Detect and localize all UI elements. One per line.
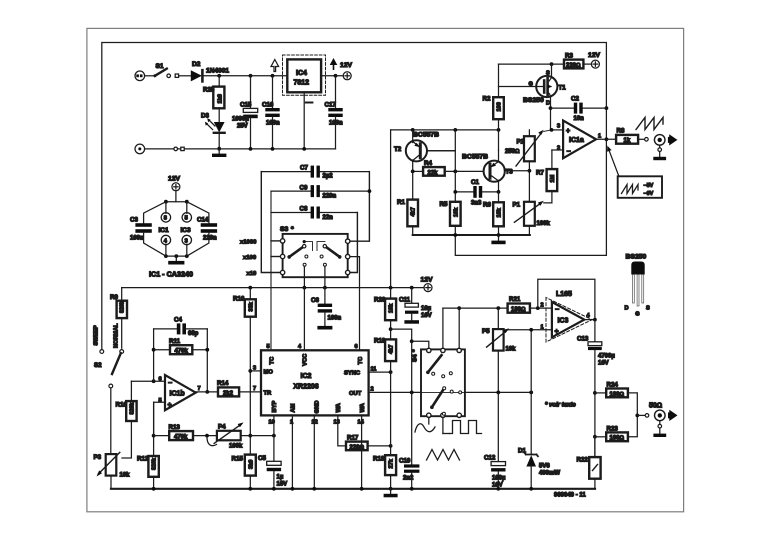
svg-text:P5: P5 — [482, 328, 490, 335]
svg-text:100µ: 100µ — [492, 476, 506, 482]
wire sweep line / top boundary wire — [102, 43, 607, 350]
node R20 top — [389, 286, 393, 290]
svg-text:R12: R12 — [137, 456, 149, 463]
svg-text:820k: 820k — [129, 403, 135, 415]
svg-text:820k: 820k — [120, 301, 126, 313]
svg-text:BS250: BS250 — [626, 254, 647, 261]
svg-text:+: + — [555, 329, 559, 336]
svg-text:R19: R19 — [374, 338, 386, 345]
svg-text:C5: C5 — [258, 455, 266, 462]
node S3a drop / IC2 VCC — [303, 286, 307, 290]
svg-text:C6: C6 — [311, 297, 319, 304]
S3a pole drop to rail — [303, 266, 305, 287]
node R13 wire / R12 — [152, 434, 156, 438]
S4 bottom contacts — [427, 413, 431, 417]
capacitor C15 1000u 25V — [250, 76, 252, 109]
wire OUT node up to R20/R19 node — [391, 329, 412, 392]
octagon left slant and C3 branch — [144, 202, 166, 224]
svg-text:R25: R25 — [203, 87, 215, 94]
square wave symbol — [450, 421, 482, 434]
IC2 XR2206 body — [261, 350, 369, 415]
wire R14 to IC2 TR pin7 — [239, 391, 261, 393]
svg-text:R21: R21 — [509, 296, 521, 303]
svg-text:TR: TR — [264, 390, 273, 396]
diode D2 1N4001 — [191, 70, 202, 81]
svg-text:10k: 10k — [497, 207, 503, 217]
svg-text:10: 10 — [269, 420, 275, 426]
svg-text:10k: 10k — [453, 207, 459, 217]
node R23 left — [593, 435, 597, 439]
capacitor C13 4700u 16V — [594, 320, 596, 342]
S4 top contacts — [427, 348, 431, 352]
S3 right contacts — [346, 239, 350, 243]
wire terminal to octagon — [175, 191, 177, 202]
wire VCC pin4 — [303, 288, 305, 351]
resistor R25 1k8 — [213, 87, 224, 109]
S4b lever — [430, 405, 434, 409]
svg-text:R1: R1 — [397, 199, 405, 206]
svg-text:3n3: 3n3 — [471, 201, 482, 207]
resistor R2 100 — [498, 64, 500, 97]
svg-text:3: 3 — [557, 124, 560, 130]
opamp IC3 L165 — [552, 302, 584, 337]
svg-text:D1: D1 — [518, 448, 526, 455]
svg-text:TC: TC — [358, 356, 364, 365]
svg-text:100n: 100n — [266, 121, 280, 127]
regulator IC4 7812 dashed outline — [283, 55, 326, 95]
wire T2 collector row — [391, 129, 499, 131]
resistor R19 4k7 (rail to SYNC) — [390, 320, 392, 339]
resistor R3 220ohm — [564, 60, 583, 69]
resistor R5 10k — [450, 202, 461, 226]
resistor R20 10k — [390, 288, 392, 299]
IC3 pin 5 circle — [186, 202, 188, 214]
svg-text:S: S — [546, 71, 550, 77]
svg-text:5V6: 5V6 — [539, 464, 550, 470]
wire C9 row — [271, 190, 311, 192]
svg-text:T3: T3 — [506, 169, 514, 176]
wire C7/C9 right bus — [350, 172, 370, 242]
svg-text:C12: C12 — [484, 455, 496, 462]
svg-text:4700µ: 4700µ — [598, 354, 615, 360]
trimmer P2 250ohm — [524, 136, 535, 161]
svg-text:1000µ: 1000µ — [232, 117, 249, 123]
wire OUT pin2 — [369, 391, 421, 393]
ground symbol below rail — [390, 489, 392, 494]
wire S4 top-middle contact to R21 wire — [442, 308, 444, 348]
svg-text:2k2: 2k2 — [223, 391, 234, 397]
svg-text:2n2: 2n2 — [403, 476, 414, 482]
ground of octagon — [174, 254, 178, 258]
wire R25 to D3 — [218, 108, 220, 122]
resistor R11 470k — [154, 349, 170, 351]
callout arrow — [610, 152, 619, 177]
svg-text:10k: 10k — [120, 473, 131, 479]
wire T2 base vertical down to rail — [390, 130, 392, 288]
svg-text:100k: 100k — [229, 444, 243, 450]
wire SYNC node down to R18 — [390, 372, 392, 455]
svg-text:* voir texte: * voir texte — [545, 403, 576, 409]
S4a lever — [426, 371, 430, 375]
wire P2 wiper link — [544, 130, 552, 132]
wire jack to S1 — [145, 75, 155, 77]
connector on bottom rail — [174, 147, 178, 151]
trimmer P4 100k — [217, 431, 241, 441]
svg-text:AM: AM — [291, 403, 297, 412]
svg-text:220n: 220n — [323, 194, 337, 200]
svg-text:C10: C10 — [399, 458, 411, 465]
node C15 top — [249, 74, 253, 78]
svg-text:IC1: IC1 — [159, 227, 170, 234]
svg-text:180Ω: 180Ω — [511, 307, 526, 313]
wire AM pin1 to rail — [291, 415, 293, 488]
wire IC2 MO pin3 — [250, 370, 261, 372]
svg-text:16V: 16V — [277, 482, 288, 488]
svg-text:100Ω: 100Ω — [610, 392, 625, 398]
svg-text:7: 7 — [198, 386, 201, 392]
sine symbol below S4 — [415, 424, 435, 432]
svg-text:960040 - 11: 960040 - 11 — [554, 493, 586, 499]
node S4 upper link — [410, 339, 414, 343]
wire C8 right down to bottom-right contact — [350, 213, 358, 273]
svg-text:1k8: 1k8 — [217, 94, 223, 103]
wire R21 to IC3 minus — [530, 307, 552, 309]
opamp IC1a — [563, 121, 596, 159]
svg-text:x10: x10 — [247, 271, 258, 277]
resistor R15 3k9 — [245, 455, 256, 476]
transistor T3 BC557B — [484, 161, 505, 182]
node R16/MO — [248, 369, 252, 373]
svg-text:C17: C17 — [325, 102, 337, 109]
svg-text:R14: R14 — [217, 380, 229, 387]
svg-text:P2: P2 — [517, 139, 525, 146]
wire IC1a minus input — [552, 149, 563, 151]
wire middle-right contact to IC2 pin6 — [350, 257, 360, 351]
svg-text:D3: D3 — [201, 113, 209, 120]
svg-text:16V: 16V — [598, 361, 609, 367]
resistor R9 820k — [121, 288, 123, 301]
svg-text:D2: D2 — [192, 61, 201, 68]
svg-text:R4: R4 — [424, 160, 432, 167]
svg-text:470k: 470k — [175, 349, 189, 355]
svg-text:1k: 1k — [624, 138, 631, 144]
wire R10 to P3 wiper — [122, 421, 131, 458]
svg-text:−5V: −5V — [644, 183, 654, 189]
capacitor C7 2u2 — [311, 166, 314, 178]
svg-text:IC1 - CA3240: IC1 - CA3240 — [149, 270, 193, 279]
resistor R10 820k — [130, 381, 132, 401]
svg-text:100n: 100n — [329, 121, 343, 127]
svg-text:C11: C11 — [399, 297, 411, 304]
svg-text:−: − — [168, 380, 172, 387]
svg-text:C8: C8 — [300, 206, 308, 213]
svg-text:C4: C4 — [174, 317, 182, 324]
svg-text:IC3: IC3 — [181, 227, 192, 234]
svg-text:VCC: VCC — [303, 353, 309, 366]
svg-text:C13: C13 — [577, 336, 589, 343]
node R16 top — [248, 286, 252, 290]
resistor R21 180ohm — [508, 304, 530, 313]
resistor R22 — [594, 437, 596, 457]
resistor R16 33k — [249, 288, 251, 300]
svg-text:IC3: IC3 — [558, 317, 569, 324]
wire WA pin13 to R17 — [338, 415, 346, 446]
resistor R8 1k — [616, 135, 638, 144]
svg-text:R18: R18 — [373, 456, 385, 463]
svg-text:6: 6 — [355, 344, 358, 350]
wire S4 bottom-left drop — [428, 417, 430, 424]
svg-text:P1: P1 — [513, 202, 521, 209]
switch S2 — [100, 350, 104, 354]
wire P2 top to IC1a plus wire — [528, 130, 530, 136]
svg-text:R24: R24 — [607, 382, 619, 389]
svg-text:220Ω: 220Ω — [350, 445, 365, 451]
IC3 feedback loop wire — [538, 279, 595, 319]
svg-text:C14: C14 — [197, 217, 209, 224]
resistor R14 2k2 — [218, 387, 239, 396]
svg-text:10k: 10k — [389, 303, 395, 313]
S3b pole drop to rail — [324, 266, 326, 287]
svg-text:12V: 12V — [168, 176, 181, 183]
capacitor C3 100n — [135, 223, 151, 227]
resistor R13 470k — [154, 435, 170, 437]
svg-text:2µ2: 2µ2 — [323, 174, 334, 180]
wire C7 row — [261, 171, 310, 173]
transistor T2 BC557B — [406, 140, 427, 161]
regulator IC4 7812 — [287, 59, 321, 92]
svg-text:100: 100 — [497, 102, 503, 111]
svg-text:220n: 220n — [203, 236, 217, 242]
svg-text:4k7: 4k7 — [389, 345, 395, 354]
IC4 input arrow — [271, 60, 279, 72]
wire IC1b minus input — [131, 380, 165, 382]
wire GND pin12 to rail — [313, 415, 315, 488]
svg-text:x1000: x1000 — [240, 239, 257, 245]
IC4 ground pin wire — [303, 92, 305, 149]
svg-text:G: G — [529, 82, 533, 88]
svg-text:820k: 820k — [152, 458, 158, 470]
svg-text:1µ: 1µ — [277, 475, 284, 481]
wire IC1a output to R8 — [596, 138, 616, 140]
wire BYP pin10 down — [273, 415, 275, 461]
svg-text:100k: 100k — [537, 221, 551, 227]
terminal 12V mid rail — [424, 284, 432, 292]
svg-text:100n: 100n — [328, 316, 342, 322]
svg-text:13: 13 — [334, 420, 340, 426]
sawtooth glyph — [636, 118, 663, 130]
output arrow — [669, 410, 677, 421]
trimmer P5 10k — [497, 308, 499, 329]
svg-text:x100: x100 — [243, 255, 257, 261]
svg-text:100Ω: 100Ω — [610, 436, 625, 442]
wire R16 down to R15 (crosses MO/TR wires) — [249, 317, 251, 455]
svg-text:T1: T1 — [559, 85, 567, 92]
svg-text:R5: R5 — [440, 201, 448, 208]
svg-text:BC557B: BC557B — [413, 132, 439, 139]
svg-text:R10: R10 — [116, 402, 128, 409]
svg-text:C1: C1 — [471, 179, 479, 186]
svg-text:3: 3 — [253, 365, 256, 371]
circuit ground rail (bottom) — [111, 488, 595, 490]
svg-text:G: G — [635, 312, 639, 318]
svg-text:2: 2 — [371, 387, 374, 393]
svg-text:S: S — [646, 306, 650, 312]
resistor R24 100ohm — [595, 392, 606, 394]
wire to 50ohm jack — [637, 414, 645, 416]
svg-text:S3: S3 — [280, 226, 289, 233]
wire P1 wiper to R7 — [544, 191, 552, 203]
svg-text:16V: 16V — [421, 313, 432, 319]
svg-text:C2: C2 — [571, 96, 579, 103]
svg-text:C16: C16 — [262, 102, 274, 109]
wire feedback right vertical — [206, 329, 208, 392]
svg-text:IC1a: IC1a — [569, 137, 584, 144]
wire P5 bottom to OUT wire — [497, 351, 499, 393]
svg-text:MO: MO — [264, 369, 274, 375]
octagon right slant and C14 branch — [187, 202, 209, 224]
svg-text:SWEEP: SWEEP — [94, 325, 100, 345]
svg-text:12V: 12V — [588, 52, 601, 59]
svg-text:3k9: 3k9 — [248, 460, 254, 469]
wire C7 left down to x10 contact — [261, 172, 280, 273]
middle 12V rail — [122, 287, 424, 289]
waveform callout box — [618, 176, 662, 198]
wire P2 bottom to T3/P1 — [528, 161, 530, 202]
svg-text:WA: WA — [336, 402, 342, 412]
IC4 output arrow — [330, 58, 338, 70]
resistor R7 1M — [547, 169, 558, 191]
node D2/R25 — [217, 74, 221, 78]
wire C8 row — [271, 212, 311, 214]
page border frame — [87, 28, 684, 511]
node C11 top — [410, 286, 414, 290]
svg-text:12V: 12V — [340, 62, 353, 69]
resistor R6 10k — [498, 192, 500, 202]
svg-text:1: 1 — [598, 134, 601, 140]
svg-text:SYNC: SYNC — [344, 371, 361, 377]
svg-text:L165: L165 — [556, 291, 572, 298]
capacitor C1 3n3 — [455, 191, 473, 193]
wire T1 drain down — [550, 97, 552, 130]
svg-text:WA: WA — [360, 402, 366, 412]
svg-text:100n: 100n — [130, 236, 144, 242]
wire WA pin14 to rail — [361, 415, 363, 488]
svg-text:S4: S4 — [412, 354, 419, 362]
resistor R18 27k — [385, 455, 396, 475]
wire IC3 output — [584, 319, 595, 321]
svg-text:BC557B: BC557B — [462, 154, 488, 161]
svg-text:R13: R13 — [169, 424, 181, 431]
wire SYNC pin11 — [369, 371, 391, 373]
svg-text:−: − — [567, 149, 571, 156]
wire P4 to BYP — [241, 435, 274, 437]
triangle wave symbol — [427, 450, 460, 461]
svg-text:*: * — [291, 226, 294, 233]
svg-text:5: 5 — [185, 216, 188, 222]
node C16 top — [271, 74, 275, 78]
svg-text:IC1b: IC1b — [170, 390, 185, 397]
wire OUT continuation to D1 branch — [465, 391, 531, 393]
svg-text:220Ω: 220Ω — [566, 63, 581, 69]
svg-text:C7: C7 — [300, 165, 308, 172]
capacitor C6 100n — [324, 288, 326, 304]
S3b selected contact wire — [317, 242, 325, 251]
svg-text:T2: T2 — [394, 146, 402, 153]
connector K1 sawtooth output jack — [654, 135, 665, 146]
block ground rail — [413, 234, 530, 236]
wire S2 pole to P3 — [110, 388, 112, 454]
node R15 top / P4 wire — [248, 434, 252, 438]
svg-text:BYP: BYP — [272, 400, 278, 412]
svg-text:R16: R16 — [233, 296, 245, 303]
svg-text:R7: R7 — [536, 170, 544, 177]
svg-text:22k: 22k — [428, 170, 439, 176]
svg-text:400mW: 400mW — [539, 471, 560, 477]
svg-text:−: − — [555, 307, 559, 314]
svg-text:IC2: IC2 — [301, 373, 312, 380]
wire IC4 out to 12V terminal — [321, 75, 343, 77]
svg-text:4k7: 4k7 — [411, 207, 417, 216]
svg-text:R15: R15 — [232, 456, 244, 463]
ground symbol of block — [498, 235, 500, 241]
svg-text:8: 8 — [164, 216, 167, 222]
connector J1 input jack — [135, 71, 145, 81]
svg-text:GND: GND — [315, 401, 321, 414]
resistor R12 820k — [153, 402, 155, 456]
output arrow top — [669, 134, 677, 145]
wire S4 top-left contact link — [412, 341, 429, 348]
S4a spare contacts — [432, 372, 435, 375]
svg-text:C3: C3 — [130, 217, 138, 224]
ground symbol below D3 node — [218, 149, 220, 154]
svg-text:BS250: BS250 — [523, 97, 544, 104]
resistor R1 4k7 — [412, 171, 414, 199]
bottom power rail — [145, 148, 336, 150]
svg-text:P4: P4 — [218, 424, 226, 431]
connector J2 bottom-left jack — [135, 144, 145, 154]
svg-text:R20: R20 — [374, 297, 386, 304]
svg-text:1M: 1M — [550, 174, 556, 182]
svg-text:22n: 22n — [323, 215, 334, 221]
potentiometer P1 100k — [524, 202, 535, 226]
svg-text:+: + — [566, 128, 570, 135]
capacitor C17 100n — [335, 76, 337, 108]
svg-text:10k: 10k — [506, 347, 517, 353]
svg-text:IC4: IC4 — [296, 70, 307, 77]
terminal 12V top-right — [591, 60, 599, 68]
wire C4/R11 left vertical — [153, 329, 155, 381]
S3b lever — [338, 255, 342, 259]
octagon bottom edge — [166, 255, 187, 257]
svg-text:250Ω: 250Ω — [505, 149, 520, 155]
capacitor C5 1u 16V — [267, 461, 281, 465]
svg-text:R23: R23 — [607, 426, 619, 433]
wire R21 row — [443, 307, 508, 309]
svg-text:470k: 470k — [174, 435, 188, 441]
resistor R4 22k — [413, 170, 423, 172]
LED D3 — [214, 122, 225, 132]
svg-text:16V: 16V — [492, 483, 503, 489]
wire T2 base to x455 vertical — [427, 150, 456, 152]
wire R7 top to IC1a minus — [551, 150, 553, 169]
node C2-to-right-bus junction — [605, 106, 609, 110]
S4b spare contacts — [443, 387, 446, 390]
potentiometer P3 10k — [106, 454, 117, 476]
svg-text:D: D — [546, 101, 550, 107]
capacitor C8 22n — [311, 207, 314, 219]
terminal 12V (power supply output) — [343, 72, 351, 80]
capacitor C2 10n — [551, 107, 574, 109]
